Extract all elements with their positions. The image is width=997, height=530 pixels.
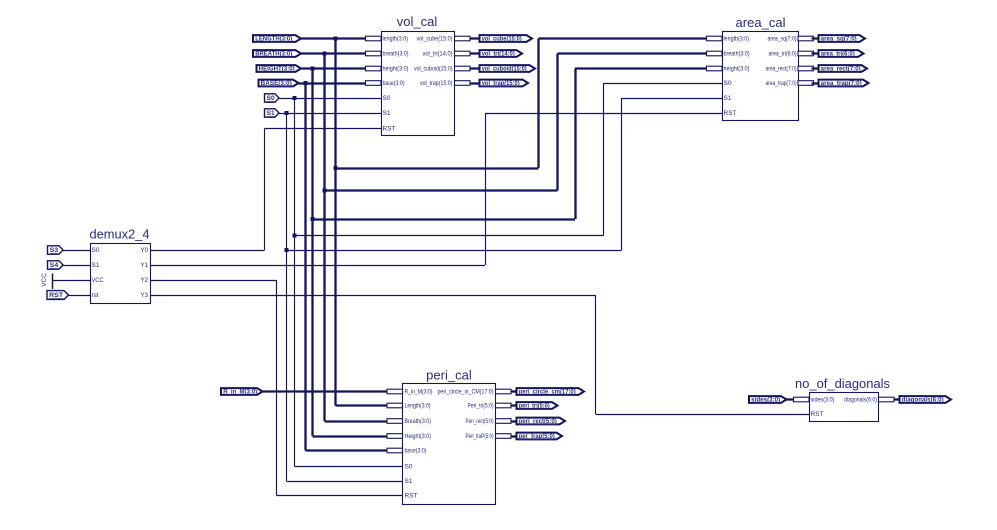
svg-text:area_rect(7:0): area_rect(7:0): [766, 66, 797, 73]
svg-text:peri_rect(5:0): peri_rect(5:0): [519, 419, 557, 425]
port area_tri(6:0): [819, 50, 864, 57]
svg-text:diagonals(6:0): diagonals(6:0): [844, 397, 877, 404]
svg-text:RST: RST: [49, 293, 63, 299]
svg-text:peri_cal: peri_cal: [426, 369, 472, 383]
port peri_rect(5:0): [517, 418, 566, 425]
pin stubs area_cal outputs: [798, 36, 814, 41]
port area_trap(7:0): [819, 80, 869, 87]
svg-text:vol_cube(15:0): vol_cube(15:0): [417, 36, 453, 43]
block area_cal U2: [723, 32, 799, 121]
port S4: [48, 261, 64, 269]
port sides(3:0): [749, 396, 787, 403]
net sides bus: [787, 398, 794, 400]
port S0: [265, 94, 280, 102]
svg-text:height(3:0): height(3:0): [724, 66, 750, 73]
svg-text:LENGTH(3:0): LENGTH(3:0): [255, 37, 292, 43]
net Y2 (demux to peri_cal RST): [150, 280, 277, 282]
net BASE bus: [299, 82, 366, 84]
svg-text:Height(3:0): Height(3:0): [405, 433, 432, 440]
port area_sq(7:0): [819, 35, 866, 42]
net Y1 (demux to area_cal RST): [150, 265, 485, 267]
svg-text:height(3:0): height(3:0): [383, 66, 409, 73]
svg-text:RST: RST: [724, 110, 737, 117]
svg-text:area_trap(7:0): area_trap(7:0): [766, 80, 797, 87]
net S0: [279, 98, 381, 100]
svg-text:Length(3:0): Length(3:0): [405, 403, 431, 410]
svg-text:vol_tri(14:0): vol_tri(14:0): [482, 52, 515, 58]
svg-text:length(3:0): length(3:0): [383, 36, 409, 43]
net Y3 (demux to no_of_diagonals RST): [150, 295, 596, 297]
svg-text:vol_cuboid(15:0): vol_cuboid(15:0): [414, 66, 453, 73]
svg-text:VCC: VCC: [92, 277, 104, 284]
port S1: [265, 109, 280, 117]
svg-text:R_in_M(3:0): R_in_M(3:0): [405, 389, 433, 396]
svg-text:S0: S0: [383, 95, 392, 102]
svg-text:area_trap(7:0): area_trap(7:0): [821, 81, 862, 87]
port vol_cube(15:0): [480, 35, 533, 42]
port per_trap(5:0): [517, 433, 563, 440]
svg-text:Y3: Y3: [141, 292, 149, 299]
pin stubs peri_cal outputs: [496, 389, 512, 394]
block no_of_diagonals U5: [810, 393, 879, 422]
block demux2_4 U3: [91, 244, 151, 304]
port peri_tri(5:0): [517, 402, 558, 409]
svg-text:area_tri(6:0): area_tri(6:0): [821, 52, 855, 58]
port R_in_M(3:0): [221, 388, 263, 395]
port BREATH(3:0): [253, 50, 301, 57]
svg-text:rst: rst: [92, 292, 99, 299]
svg-text:base(3:0): base(3:0): [405, 448, 427, 455]
svg-text:Y2: Y2: [141, 277, 149, 284]
svg-text:BREATH(3:0): BREATH(3:0): [255, 52, 292, 58]
svg-text:S1: S1: [92, 262, 101, 269]
svg-text:R_in_M(3:0): R_in_M(3:0): [223, 390, 257, 396]
svg-text:area_cal: area_cal: [736, 16, 786, 30]
svg-text:Y1: Y1: [141, 262, 149, 269]
port LENGTH(3:0): [253, 35, 301, 42]
net S1: [279, 113, 381, 115]
svg-text:S1: S1: [383, 110, 392, 117]
svg-text:area_tri(6:0): area_tri(6:0): [769, 51, 797, 58]
svg-text:vol_cuboid(15:0): vol_cuboid(15:0): [482, 67, 527, 73]
svg-text:S1: S1: [405, 478, 414, 485]
pin stub no_of_diagonals input: [794, 397, 810, 402]
port vol_tri(14:0): [480, 50, 523, 57]
pin stubs peri_cal inputs: [387, 389, 403, 394]
port vol_trap(15:0): [480, 80, 529, 87]
port HEIGHT(3:0): [257, 65, 302, 72]
svg-text:RST: RST: [383, 126, 396, 133]
svg-text:vol_tri(14:0): vol_tri(14:0): [423, 51, 453, 58]
net diagonals output bus: [894, 398, 900, 400]
power VCC: [52, 274, 54, 290]
svg-text:Peri_traP(5:0): Peri_traP(5:0): [466, 433, 494, 440]
svg-text:S1: S1: [724, 95, 733, 102]
net vol_cal output buses: [470, 37, 480, 39]
port area_rect(7:0): [819, 65, 868, 72]
svg-text:diagonals(6:0): diagonals(6:0): [902, 398, 944, 404]
svg-text:demux2_4: demux2_4: [90, 228, 150, 242]
svg-text:peri_tri(5:0): peri_tri(5:0): [519, 404, 550, 410]
block vol_cal U1: [382, 32, 455, 136]
port BASE(3:0): [259, 80, 299, 87]
svg-text:per_trap(5:0): per_trap(5:0): [519, 434, 555, 440]
svg-text:VCC: VCC: [41, 273, 48, 287]
svg-text:length(3:0): length(3:0): [724, 36, 750, 43]
svg-text:S3: S3: [50, 248, 59, 254]
svg-text:breath(3:0): breath(3:0): [383, 51, 409, 58]
port vol_cuboid(15:0): [480, 65, 536, 72]
svg-text:vol_trap(15:0): vol_trap(15:0): [482, 81, 520, 87]
port peri_circle_cm(17:0): [517, 388, 585, 395]
svg-text:RST: RST: [405, 493, 418, 500]
net area_cal output buses: [812, 37, 819, 39]
port S3: [48, 246, 64, 254]
svg-text:S0: S0: [724, 80, 733, 87]
svg-text:S0: S0: [267, 96, 276, 102]
svg-text:sides(3:0): sides(3:0): [811, 397, 835, 404]
svg-text:Breath(3:0): Breath(3:0): [405, 418, 432, 425]
pin stub no_of_diagonals output: [879, 397, 895, 402]
svg-text:Peri_rect(5:0): Peri_rect(5:0): [466, 418, 494, 425]
pin stubs area_cal inputs: [707, 36, 723, 41]
svg-text:breath(3:0): breath(3:0): [724, 51, 750, 58]
svg-text:S0: S0: [405, 464, 414, 471]
svg-text:area_sq(7:0): area_sq(7:0): [821, 37, 857, 43]
port diagonals(6:0): [900, 396, 952, 403]
net LENGTH bus: [301, 37, 366, 39]
svg-text:vol_cube(15:0): vol_cube(15:0): [482, 37, 522, 43]
wire RST to demux rst: [68, 295, 91, 297]
svg-text:S0: S0: [92, 247, 101, 254]
wire S4 to demux S1: [63, 265, 91, 267]
net HEIGHT bus: [301, 67, 366, 69]
block peri_cal U4: [403, 384, 496, 505]
svg-text:S1: S1: [267, 111, 276, 117]
net BREATH bus: [301, 52, 366, 54]
svg-text:Peri_tri(5:0): Peri_tri(5:0): [468, 403, 494, 410]
svg-text:Y0: Y0: [141, 247, 149, 254]
svg-text:BASE(3:0): BASE(3:0): [261, 81, 292, 87]
svg-text:vol_cal: vol_cal: [397, 15, 438, 29]
pin stubs vol_cal inputs: [366, 36, 382, 41]
pin stubs vol_cal outputs: [455, 36, 471, 41]
port RST: [47, 291, 69, 300]
svg-text:area_rect(7:0): area_rect(7:0): [821, 67, 861, 73]
svg-text:base(3:0): base(3:0): [383, 80, 405, 87]
svg-text:HEIGHT(3:0): HEIGHT(3:0): [259, 67, 295, 73]
svg-text:vol_trap(15:0): vol_trap(15:0): [420, 80, 453, 87]
svg-text:peri_circle_in_CM(17:0): peri_circle_in_CM(17:0): [438, 389, 494, 396]
svg-text:no_of_diagonals: no_of_diagonals: [795, 377, 890, 391]
net peri_cal output buses: [511, 390, 517, 392]
net R_in_M bus: [263, 390, 388, 392]
svg-text:sides(3:0): sides(3:0): [751, 398, 780, 404]
svg-text:area_sq(7:0): area_sq(7:0): [768, 36, 797, 43]
wire S3 to demux S0: [63, 250, 91, 252]
net Y0 (demux to vol_cal RST): [150, 250, 265, 252]
svg-text:S4: S4: [50, 263, 59, 269]
svg-text:peri_circle_cm(17:0): peri_circle_cm(17:0): [519, 390, 576, 396]
svg-text:RST: RST: [811, 411, 824, 418]
